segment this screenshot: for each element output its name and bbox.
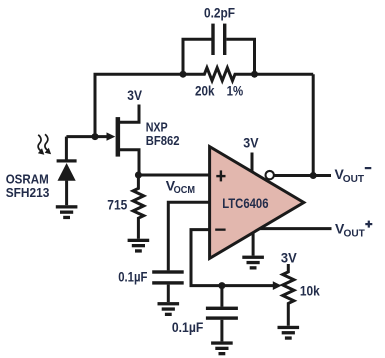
op-amp U1 LTC6406 triangle — [210, 147, 304, 259]
svg-text:0.2pF: 0.2pF — [204, 4, 235, 20]
wire minus input to reference node — [191, 230, 274, 286]
transistor Q1 channel bar — [116, 117, 121, 157]
svg-text:715: 715 — [107, 197, 127, 213]
wire gate node horizontal — [66, 135, 108, 138]
transistor Q1 gate arrow — [107, 132, 116, 140]
wire cap2 to ground — [220, 320, 223, 342]
svg-text:SFH213: SFH213 — [6, 185, 50, 200]
photodiode D1 cathode bar — [57, 159, 77, 162]
svg-text:0.1µF: 0.1µF — [172, 320, 203, 335]
svg-text:3V: 3V — [243, 135, 259, 151]
node dot D (source/715) — [135, 172, 142, 179]
svg-text:20k: 20k — [195, 83, 215, 98]
node dot F (ref node) — [218, 282, 225, 289]
op-amp minus sign — [215, 229, 225, 231]
wire source node to op-amp + input — [138, 174, 211, 177]
wire VOCM pin — [168, 202, 211, 270]
svg-text:1%: 1% — [227, 83, 244, 98]
wire op-amp 3V supply — [251, 153, 254, 172]
op-amp plus sign — [216, 170, 225, 181]
wire VOUT+ line — [258, 227, 332, 230]
svg-text:3V: 3V — [281, 249, 297, 265]
wire op-amp V- to ground — [252, 231, 255, 256]
wire VOCM cap to ground — [167, 285, 170, 303]
ground (715) — [128, 239, 150, 253]
svg-text:OUT: OUT — [344, 228, 365, 239]
capacitor C3 0.1uF plates (ref) — [206, 307, 238, 320]
node dot E (VOUT- feedback) — [310, 172, 317, 179]
wire VOUT- line — [274, 174, 331, 177]
resistor R1 20k zigzag — [183, 68, 255, 81]
node dot C (gate) — [92, 133, 99, 140]
svg-text:BF862: BF862 — [146, 133, 180, 148]
wire photodiode anode drop — [65, 137, 68, 160]
svg-text:LTC6406: LTC6406 — [222, 195, 268, 211]
svg-text:OUT: OUT — [343, 174, 364, 185]
photodiode D1 triangle — [58, 163, 76, 181]
wire top segment right of 20k to right corner — [255, 73, 314, 76]
ground (op-amp) — [242, 256, 264, 270]
wire capacitor branch right riser — [227, 39, 255, 74]
light arrow 1 — [38, 135, 41, 151]
wire ref node to cap2 — [220, 286, 223, 307]
svg-text:0.1µF: 0.1µF — [118, 270, 147, 285]
wire capacitor branch left riser — [183, 39, 212, 74]
node dot A (cap left) — [180, 71, 187, 78]
transistor Q1 source lead — [120, 150, 140, 175]
resistor R2 715 zigzag — [133, 175, 144, 239]
capacitor C1 0.2pF plates — [211, 24, 226, 55]
ground (pot) — [278, 326, 300, 340]
wire feedback left vertical + top segment — [95, 74, 183, 136]
svg-text:OCM: OCM — [174, 185, 195, 196]
wire photodiode to ground — [65, 181, 68, 206]
ground (photodiode) — [56, 205, 78, 219]
ground (ref cap) — [211, 341, 233, 355]
wire right feedback vertical — [312, 74, 315, 175]
svg-text:10k: 10k — [300, 283, 320, 299]
svg-text:3V: 3V — [127, 87, 142, 103]
op-amp output bubble — [266, 171, 274, 179]
capacitor C2 0.1uF plates (VOCM) — [152, 270, 184, 284]
resistor R3 10k pot zigzag — [283, 264, 294, 326]
pot wiper arrow head — [273, 281, 282, 290]
ground (VOCM cap) — [158, 302, 180, 316]
node dot B (cap right) — [251, 71, 258, 78]
light arrow 2 — [45, 134, 48, 150]
transistor Q1 drain lead — [120, 105, 140, 123]
